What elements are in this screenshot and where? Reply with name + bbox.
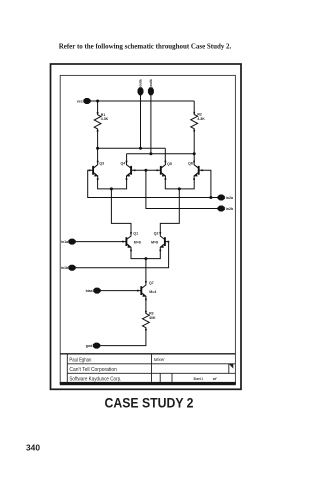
svg-text:in1b: in1b	[61, 266, 69, 270]
svg-text:of: of	[213, 377, 217, 381]
wire outer base route in2a	[88, 170, 218, 197]
svg-text:Q3: Q3	[99, 162, 104, 166]
svg-text:Q1: Q1	[133, 232, 138, 236]
wire in1b to Q2 base	[75, 242, 168, 268]
wire outb drop	[150, 95, 152, 154]
terminal outb	[148, 87, 154, 95]
svg-text:vcc: vcc	[77, 99, 83, 103]
wire in2b route	[146, 170, 218, 208]
svg-text:outb: outb	[149, 79, 153, 87]
wire R3 bottom to gnd	[100, 330, 146, 346]
wire right pair tail to Q2 collector	[160, 189, 179, 233]
resistor R1	[94, 112, 101, 132]
svg-text:Can't Tell Corporation: Can't Tell Corporation	[69, 367, 117, 373]
terminal in1b	[68, 265, 75, 271]
transistor Q4	[126, 161, 136, 180]
transistor Q5	[156, 161, 166, 180]
wire Q7 emitter stem	[145, 300, 147, 312]
svg-text:M=8: M=8	[134, 241, 141, 245]
wire R1 bottom stem	[97, 131, 99, 148]
wire Q5 collector stem	[164, 148, 166, 161]
svg-text:Sheet 1: Sheet 1	[194, 377, 204, 381]
svg-text:M=8: M=8	[151, 241, 158, 245]
wire tail drop to Q7 collector	[145, 259, 147, 282]
svg-text:40K: 40K	[149, 316, 156, 320]
transistor Q7	[137, 281, 147, 300]
svg-text:Q6: Q6	[188, 162, 193, 166]
transistor Q1	[122, 232, 132, 251]
svg-text:M=4: M=4	[149, 290, 156, 294]
terminal in2b	[218, 206, 225, 212]
wire R2 bottom stem	[193, 131, 195, 154]
svg-text:Q7: Q7	[149, 281, 154, 285]
wire left quad emitter rail	[98, 179, 127, 189]
wire inner base rail Q4-Q5	[135, 169, 158, 171]
wire outa drop	[140, 95, 142, 149]
wire left pair tail to Q1 collector	[111, 189, 131, 233]
wire vcc rail	[91, 100, 195, 102]
terminal in1a	[68, 239, 75, 245]
wire bias to Q7 base	[101, 290, 138, 292]
svg-text:Software Kaydunce Corp.: Software Kaydunce Corp.	[69, 376, 121, 382]
title block rev mark	[229, 364, 233, 369]
wire Q6 collector stem	[193, 154, 195, 162]
svg-text:in2a: in2a	[226, 196, 234, 200]
terminal gnd	[93, 343, 100, 349]
svg-text:Q4: Q4	[121, 162, 126, 166]
wire R1 top stem	[97, 101, 99, 113]
wire rail B (out b net)	[127, 153, 195, 155]
terminal outa	[138, 87, 144, 95]
terminal bias	[93, 288, 100, 294]
wire Q6 base route	[202, 170, 211, 197]
wire right quad emitter rail	[165, 179, 194, 189]
wire R2 top stem	[193, 101, 195, 113]
svg-text:Mixer: Mixer	[154, 357, 165, 362]
wire Q3 collector stem	[97, 148, 99, 161]
wire rail A (out a net)	[98, 147, 166, 149]
wire in1a to Q1 base	[75, 241, 123, 243]
junction dots	[96, 100, 212, 261]
svg-text:in2b: in2b	[226, 207, 234, 211]
svg-text:CASE STUDY 2: CASE STUDY 2	[105, 396, 194, 411]
svg-text:Refer to the following schemat: Refer to the following schematic through…	[59, 41, 232, 50]
svg-text:bias: bias	[86, 289, 93, 293]
svg-text:Q5: Q5	[167, 162, 172, 166]
terminal in2a	[218, 195, 225, 201]
transistor Q6	[193, 161, 203, 180]
svg-text:Paul Eghan: Paul Eghan	[69, 357, 91, 363]
outer page border	[51, 64, 242, 389]
transistor Q2	[159, 232, 169, 251]
svg-text:4.3K: 4.3K	[197, 117, 205, 121]
svg-text:in1a: in1a	[61, 240, 69, 244]
resistor R3	[143, 311, 150, 331]
terminal vcc	[83, 98, 90, 104]
title block thick bottom bar	[60, 382, 236, 385]
svg-text:outa: outa	[139, 79, 143, 86]
inner schematic frame	[60, 75, 235, 383]
transistor Q3	[89, 161, 99, 180]
wire Q4 collector stem	[126, 154, 128, 162]
svg-text:gnd: gnd	[86, 344, 93, 348]
title block frame	[60, 354, 235, 382]
resistor R2	[191, 112, 198, 132]
wire input pair emitter rail	[131, 251, 160, 259]
svg-text:340: 340	[26, 442, 40, 452]
svg-text:Q2: Q2	[154, 232, 159, 236]
svg-text:4.3K: 4.3K	[101, 117, 109, 121]
